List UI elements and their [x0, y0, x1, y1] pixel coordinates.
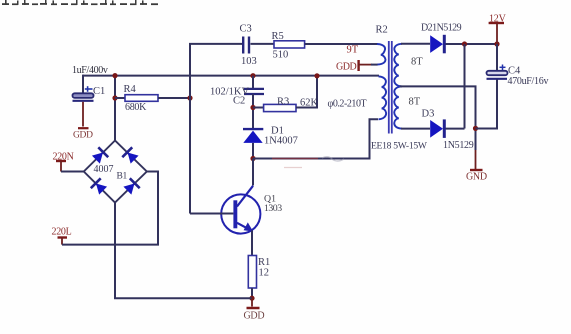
ground GDD (C1)	[73, 128, 93, 140]
bridge rectifier B1 diamond	[84, 141, 147, 203]
port 220N	[53, 151, 74, 171]
svg-text:680K: 680K	[125, 102, 147, 113]
diode D3	[430, 119, 444, 137]
wire: D2 cathode to 12V rail	[446, 43, 498, 45]
svg-text:103: 103	[241, 56, 257, 67]
port 220L	[52, 227, 72, 245]
wire: C2 bottom to D1	[252, 94, 254, 128]
svg-text:1uF/400v: 1uF/400v	[72, 65, 108, 76]
wire: GDD stub under R1	[251, 298, 253, 306]
wire: R4 left lead	[115, 97, 125, 99]
bridge diode bottom-right	[122, 178, 139, 195]
wire: snubber return to primary bottom	[253, 119, 378, 158]
svg-text:C2: C2	[233, 96, 245, 107]
junction dot	[494, 41, 499, 46]
svg-text:R1: R1	[258, 257, 270, 268]
svg-text:1N5129: 1N5129	[443, 140, 474, 151]
wire: between C3 and R5	[251, 43, 275, 45]
junction dot	[112, 95, 117, 100]
capacitor C2	[244, 89, 264, 94]
svg-text:8T: 8T	[409, 97, 421, 108]
junction dot	[314, 73, 319, 78]
wire: GND stub	[475, 150, 477, 169]
wire: base lead	[190, 213, 233, 215]
wire: R5 right lead to 9T winding	[305, 43, 378, 45]
port 12V	[489, 13, 507, 44]
wire: collector vertical	[252, 159, 254, 186]
wire: 220L to bridge right vertex	[62, 172, 158, 245]
wire: base drive vertical x=190	[189, 44, 191, 214]
resistor R1	[248, 256, 256, 289]
svg-text:GDD: GDD	[244, 311, 265, 322]
wire: rectifier link vertical x=464.5	[464, 44, 466, 129]
capacitor C1	[73, 93, 94, 101]
ground GDD (9T)	[336, 60, 372, 72]
resistor R4	[125, 95, 158, 102]
svg-text:C4: C4	[508, 66, 521, 77]
svg-text:1N4007: 1N4007	[264, 136, 298, 147]
wire: C2 top stem	[252, 76, 254, 89]
junction dot	[112, 73, 117, 78]
diode D2	[430, 35, 444, 54]
C4 polarity plus	[500, 65, 506, 71]
svg-text:C1: C1	[93, 86, 105, 97]
svg-text:510: 510	[273, 50, 289, 61]
svg-text:B1: B1	[117, 171, 128, 181]
svg-text:R4: R4	[124, 84, 137, 95]
wire: main DC+ rail y=75.6	[83, 75, 379, 77]
transformer secondary top 8T	[394, 44, 402, 87]
svg-text:R5: R5	[272, 31, 284, 42]
wire: emitter to R1	[251, 231, 253, 256]
transformer 9T primary winding	[377, 44, 385, 65]
junction dot	[473, 126, 478, 131]
clipped title text	[2, 0, 158, 5]
capacitor C4	[487, 71, 508, 79]
svg-text:1303: 1303	[264, 203, 282, 214]
svg-text:EE18 5W-15W: EE18 5W-15W	[371, 140, 428, 151]
wire: secondary top lead to D2	[401, 43, 430, 45]
svg-text:R3: R3	[277, 97, 289, 108]
wire: C1 ground stem	[82, 102, 84, 127]
wire: R3 right lead up to rail	[296, 76, 317, 108]
wire: vertical to bridge top, x=115	[114, 76, 116, 141]
resistor R5	[274, 41, 305, 48]
wire: R3 left lead	[253, 107, 264, 109]
svg-text:D21N5129: D21N5129	[421, 22, 462, 33]
svg-text:9T: 9T	[347, 45, 359, 56]
wire: D3 cathode to link	[446, 128, 465, 130]
wire: R4 right lead	[158, 97, 190, 99]
junction dot	[249, 296, 254, 301]
svg-text:470uF/16v: 470uF/16v	[508, 76, 549, 87]
junction dot	[462, 41, 467, 46]
svg-text:8T: 8T	[411, 57, 423, 68]
ground GDD (bottom)	[244, 308, 265, 322]
bridge diode bottom-left	[91, 178, 108, 195]
capacitor C3	[243, 37, 249, 54]
bridge diode top-left	[91, 147, 108, 164]
wire: C4 bottom stem to ground node	[476, 80, 498, 129]
transformer core	[389, 41, 392, 134]
C1 polarity plus	[85, 86, 93, 92]
bridge diode top-right	[122, 147, 139, 164]
junction dot	[187, 95, 192, 100]
svg-text:12: 12	[259, 268, 270, 279]
svg-text:D3: D3	[422, 109, 435, 120]
svg-text:220L: 220L	[52, 227, 72, 238]
wire: D1 anode to collector node	[252, 143, 254, 159]
ground GND	[466, 170, 487, 182]
resistor R3	[264, 104, 296, 111]
svg-text:φ0.2-210T: φ0.2-210T	[328, 99, 367, 110]
transistor Q1	[221, 186, 260, 234]
svg-text:C3: C3	[240, 24, 252, 35]
transformer secondary bottom 8T	[394, 86, 402, 128]
wire: C1 top stem	[82, 75, 84, 94]
svg-text:4007: 4007	[94, 164, 114, 175]
wire: bottom return wire	[115, 203, 252, 299]
junction dot	[250, 156, 255, 161]
junction dot	[250, 105, 255, 110]
svg-text:R2: R2	[376, 25, 388, 36]
wire: 220N to bridge left vertex	[61, 171, 84, 173]
wire: center tap to ground	[400, 86, 476, 150]
svg-text:GDD: GDD	[73, 131, 93, 141]
junction dot	[250, 73, 255, 78]
decorative watermark smudge (not a component)	[272, 157, 344, 168]
wire: 9T bottom lead	[371, 64, 378, 66]
wire: C4 top stem	[496, 44, 498, 71]
wire: top feedback wire y=43.9 left of C3	[189, 43, 242, 45]
diode D1	[243, 129, 263, 143]
svg-text:GDD: GDD	[336, 61, 356, 72]
svg-text:GND: GND	[466, 171, 487, 182]
wire: secondary bottom lead to D3	[401, 128, 430, 130]
wire: R1 bottom lead	[251, 288, 253, 298]
transformer primary winding 210T	[379, 76, 387, 119]
